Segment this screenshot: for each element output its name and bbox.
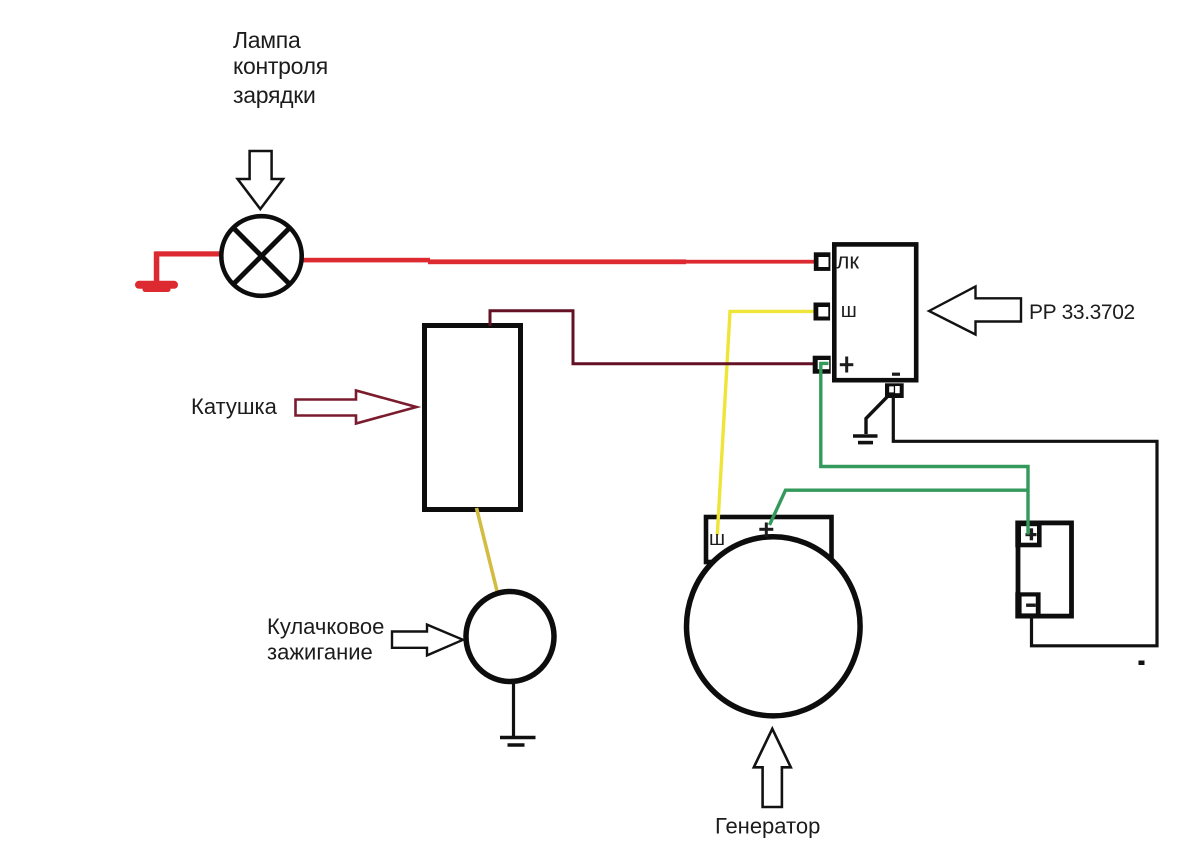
terminal лк of regulator [814,252,831,271]
battery + terminal [1015,521,1041,548]
battery - terminal [1015,592,1040,618]
terminal ш of regulator [814,303,831,321]
arrow (dark red) pointing to coil [296,391,417,424]
svg-text:Генератор: Генератор [715,814,820,839]
generator terminal block (rectangle on generator) [706,517,832,562]
arrow (up) pointing to generator [754,729,791,807]
svg-text:лк: лк [837,249,860,274]
wire (yellow) coil bottom to cam ignition [477,508,498,593]
svg-text:зажигание: зажигание [267,640,373,665]
wire (black) regulator - to battery - (right loop) [893,396,1157,646]
svg-text:ш: ш [841,300,857,322]
cam ignition circle [466,592,554,682]
label "Кулачковое зажигание" [267,614,384,665]
generator circle [687,537,861,716]
arrow (black) pointing to cam ignition [392,625,463,656]
ground (under cam ignition) [500,681,536,745]
stray mark (small dash bottom right) [1139,661,1145,666]
svg-text:зарядки: зарядки [233,82,316,108]
svg-text:РР 33.3702: РР 33.3702 [1029,301,1135,324]
wire (dark red) coil top to regulator terminal + [490,311,814,364]
terminal - (bottom) of regulator [885,383,904,398]
wire (yellow) regulator terminal ш to generator ш [717,311,814,535]
svg-text:ш: ш [709,528,725,550]
ground (red, left of lamp) [135,252,178,293]
coil box (Катушка) [425,326,521,510]
arrow (white, left) pointing to regulator [929,287,1021,335]
ground (under regulator) [853,397,888,443]
wire (green) regulator + to battery + [821,363,1028,534]
wire (green) generator + to battery + [770,490,1029,525]
terminal + of regulator [813,356,831,374]
pin label + on generator [759,523,773,538]
wire (red) ground to lamp [155,251,220,256]
svg-text:контроля: контроля [233,53,328,79]
svg-text:Катушка: Катушка [191,394,278,419]
lamp HL1 (charge control lamp) [221,216,301,296]
svg-text:Лампа: Лампа [233,27,301,53]
label "Лампа контроля зарядки" [233,27,328,108]
battery box [1018,523,1072,616]
regulator box РР 33.3702 [834,244,916,380]
pin labels inside regulator [837,249,901,376]
wire (red) lamp to regulator terminal лк [300,258,815,264]
svg-text:Кулачковое: Кулачковое [267,614,384,639]
arrow (down) pointing to lamp HL1 [238,151,283,209]
